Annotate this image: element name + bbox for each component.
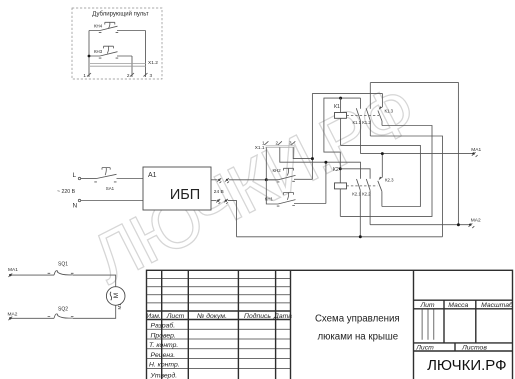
wire SQ2 to MA2 end bbox=[9, 317, 11, 319]
svg-text:К1.2: К1.2 bbox=[362, 120, 371, 125]
svg-text:МА2: МА2 bbox=[8, 311, 18, 317]
svg-text:К2.3: К2.3 bbox=[385, 178, 394, 183]
wire K2 contact feed bbox=[340, 169, 370, 179]
wire 24V minus output with connector pins bbox=[211, 199, 237, 237]
svg-text:2: 2 bbox=[276, 140, 279, 145]
node L terminal bbox=[78, 177, 80, 179]
UPS unit A1 bbox=[143, 167, 211, 210]
button KH1 bbox=[265, 193, 326, 207]
wire KH2/pin3 riser to K1 row bbox=[311, 93, 313, 179]
wire MA2 line bbox=[370, 217, 481, 228]
svg-text:2: 2 bbox=[127, 73, 130, 78]
svg-text:Масштаб: Масштаб bbox=[481, 301, 514, 309]
wire KH4 right down to pin 3 bbox=[145, 31, 147, 78]
svg-text:К2.1: К2.1 bbox=[352, 192, 361, 197]
svg-text:Лист: Лист bbox=[415, 345, 434, 352]
svg-text:Утверд.: Утверд. bbox=[150, 371, 178, 379]
svg-text:1: 1 bbox=[262, 140, 265, 145]
svg-text:X1.2: X1.2 bbox=[148, 60, 158, 66]
title block texts bbox=[146, 301, 514, 379]
node K2 coil top bbox=[339, 167, 342, 170]
svg-text:М: М bbox=[113, 293, 120, 298]
svg-text:N: N bbox=[73, 203, 78, 210]
svg-text:SQ2: SQ2 bbox=[58, 307, 68, 313]
limit switch SQ1 bbox=[48, 262, 74, 276]
connector X1.2 bbox=[83, 60, 158, 78]
svg-text:Дата: Дата bbox=[273, 313, 292, 320]
wire K1.2 top to MA2 riser bbox=[370, 83, 458, 225]
svg-text:КН1: КН1 bbox=[265, 196, 274, 201]
node pin2 junction bbox=[324, 161, 327, 164]
svg-text:24 В: 24 В bbox=[214, 189, 224, 195]
svg-text:К1.3: К1.3 bbox=[385, 109, 394, 114]
wire X1.1 pin1 down bbox=[265, 147, 267, 179]
svg-text:КН2: КН2 bbox=[273, 168, 282, 173]
svg-text:SQ1: SQ1 bbox=[58, 262, 68, 268]
wire K1.3 bottom loop to K2 coil bottom bbox=[340, 126, 432, 217]
svg-text:Подпись: Подпись bbox=[244, 312, 271, 320]
wire KH1 riser to pin2 line bbox=[325, 162, 327, 203]
motor M1 bbox=[106, 287, 125, 310]
contact K1.1 bbox=[353, 98, 362, 154]
svg-text:Схема управления: Схема управления bbox=[315, 313, 400, 324]
svg-text:К1: К1 bbox=[334, 104, 340, 110]
svg-text:Листов: Листов bbox=[461, 345, 487, 352]
button KH2 bbox=[266, 168, 312, 182]
watermark bbox=[79, 70, 426, 298]
svg-text:3: 3 bbox=[150, 73, 153, 78]
wire K1 top feed bbox=[312, 92, 382, 94]
connector X1.1 bbox=[255, 140, 295, 150]
wire L line bbox=[81, 178, 97, 180]
svg-text:К2.2: К2.2 bbox=[362, 192, 371, 197]
wire MA1 line bbox=[361, 147, 482, 157]
button KH3 bbox=[89, 46, 132, 58]
svg-text:М1: М1 bbox=[117, 303, 122, 310]
svg-text:КН3: КН3 bbox=[94, 49, 103, 54]
wire MA1 to SQ1 bbox=[9, 274, 11, 276]
button KH4 bbox=[89, 22, 146, 32]
node pin3 junction bbox=[311, 157, 314, 160]
svg-text:Лист: Лист bbox=[166, 313, 185, 320]
contact K2.2 bbox=[362, 179, 371, 225]
svg-text:Масса: Масса bbox=[448, 302, 468, 309]
svg-text:Реценз.: Реценз. bbox=[151, 352, 176, 359]
node console junction bbox=[88, 55, 91, 58]
svg-text:№ докум.: № докум. bbox=[197, 312, 227, 320]
wire 0V bottom rail bbox=[237, 236, 443, 238]
svg-text:К1.1: К1.1 bbox=[353, 120, 362, 125]
wire K1 inner rail bbox=[324, 98, 361, 183]
svg-text:ИБП: ИБП bbox=[170, 187, 200, 203]
svg-text:SA1: SA1 bbox=[106, 186, 115, 191]
limit switch SQ2 bbox=[48, 307, 74, 319]
svg-text:Разраб.: Разраб. bbox=[151, 322, 176, 330]
svg-text:~ 220 В: ~ 220 В bbox=[57, 189, 76, 195]
svg-text:L: L bbox=[73, 172, 77, 179]
svg-text:МА2: МА2 bbox=[471, 217, 481, 223]
wire X1.1 pin3 down and right bbox=[293, 147, 312, 158]
node 24V plus junction bbox=[265, 178, 268, 181]
svg-text:А1: А1 bbox=[148, 172, 157, 179]
title block frame bbox=[147, 270, 513, 379]
svg-text:К2: К2 bbox=[333, 167, 339, 173]
svg-text:МА1: МА1 bbox=[8, 267, 18, 273]
node K1 coil top bbox=[339, 97, 342, 100]
svg-text:КН4: КН4 bbox=[94, 23, 103, 28]
wire 24V plus output with connector pins bbox=[211, 178, 278, 183]
contact K2.1 bbox=[352, 179, 361, 237]
contact K1.2 bbox=[362, 83, 371, 136]
wire N line bbox=[81, 200, 143, 202]
svg-text:Н. контр.: Н. контр. bbox=[149, 362, 180, 369]
svg-text:1: 1 bbox=[83, 73, 86, 78]
wire SQ1 to motor bbox=[73, 275, 116, 287]
svg-text:Изм.: Изм. bbox=[146, 313, 161, 320]
wire K1 coil bottom loop to K2.3 bottom bbox=[341, 145, 421, 206]
svg-text:Лит: Лит bbox=[419, 302, 434, 309]
svg-text:люками на крыше: люками на крыше bbox=[317, 331, 398, 342]
svg-text:МА1: МА1 bbox=[471, 147, 481, 153]
relay coil K2 bbox=[333, 167, 378, 217]
contact K1.3 bbox=[378, 93, 394, 125]
wire KH1 feed from 24V node bbox=[266, 180, 278, 204]
wire K1.2 bottom to 0V riser bbox=[370, 136, 442, 237]
node K2.1 bottom on 0V rail bbox=[359, 235, 362, 238]
svg-text:Провер.: Провер. bbox=[151, 332, 176, 339]
relay coil K1 bbox=[334, 98, 379, 145]
node N terminal bbox=[78, 199, 80, 201]
duplicate console dashed enclosure X1.2 box bbox=[72, 8, 162, 79]
contact K2.3 bbox=[378, 154, 394, 207]
switch SA1 bbox=[94, 168, 143, 192]
wire motor to SQ2 bbox=[73, 305, 116, 318]
svg-text:ЛЮЧКИ.РФ: ЛЮЧКИ.РФ bbox=[427, 357, 506, 374]
svg-text:Дублирующий пульт: Дублирующий пульт bbox=[92, 11, 149, 18]
wire KH3 right down to pin 2 bbox=[131, 56, 133, 77]
svg-text:3: 3 bbox=[289, 140, 292, 145]
wire console left vertical bbox=[88, 31, 90, 78]
svg-text:X1.1: X1.1 bbox=[255, 145, 265, 150]
wire X1.1 pin2 down and right bbox=[280, 147, 361, 178]
svg-text:Т. контр.: Т. контр. bbox=[149, 342, 178, 349]
